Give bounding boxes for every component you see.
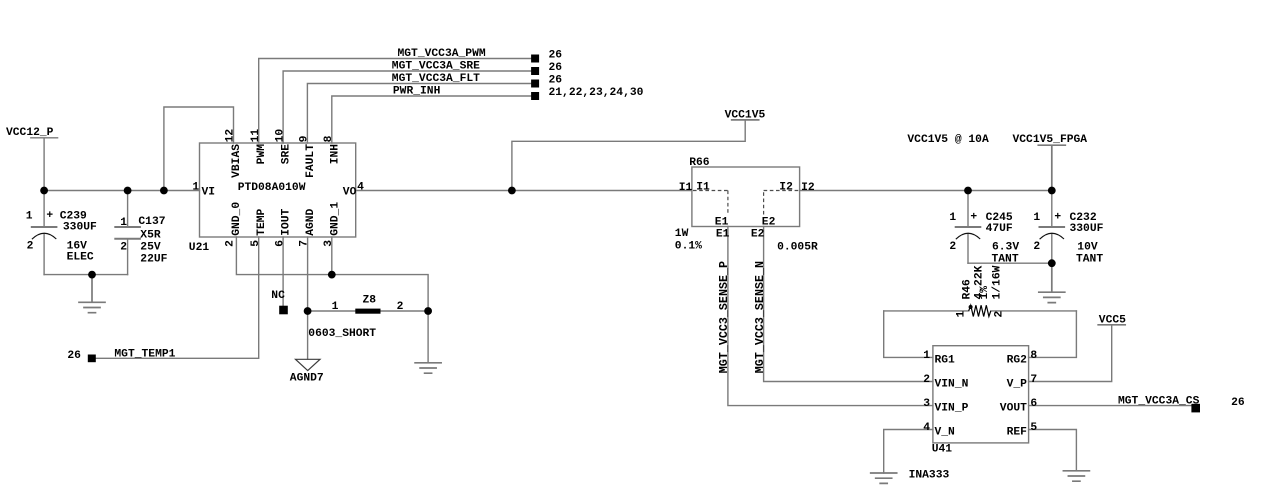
svg-text:AGND: AGND <box>305 208 317 235</box>
no-connect square NC <box>279 306 288 315</box>
svg-text:11: 11 <box>250 129 262 143</box>
svg-text:MGT_VCC3A_CS: MGT_VCC3A_CS <box>1118 396 1200 408</box>
svg-text:IOUT: IOUT <box>281 208 293 235</box>
wire pin SRE to net <box>283 71 531 143</box>
svg-text:1%: 1% <box>979 286 991 300</box>
svg-text:C137: C137 <box>138 216 165 228</box>
svg-text:26: 26 <box>67 350 81 362</box>
svg-text:1: 1 <box>956 311 968 318</box>
wire Z8 leads <box>308 310 429 312</box>
svg-text:25V: 25V <box>140 241 161 253</box>
svg-text:SRE: SRE <box>281 144 293 165</box>
svg-text:1/16W: 1/16W <box>992 265 1004 299</box>
power flag VCC5 <box>1098 324 1125 326</box>
wire VO bus <box>356 190 692 192</box>
svg-text:GND_1: GND_1 <box>329 202 341 236</box>
svg-text:PTD08A010W: PTD08A010W <box>238 182 306 194</box>
svg-text:E1: E1 <box>716 228 730 240</box>
svg-text:Z8: Z8 <box>363 295 377 307</box>
svg-text:3: 3 <box>923 398 930 410</box>
svg-text:22UF: 22UF <box>140 253 167 265</box>
resistor R46 zigzag <box>969 305 991 316</box>
svg-text:2: 2 <box>225 240 237 247</box>
wire pin PWM to net <box>259 59 531 144</box>
ground under REF <box>1063 471 1089 481</box>
svg-text:E2: E2 <box>751 228 765 240</box>
power flag VCC12_P <box>31 138 58 191</box>
wire AGND stem <box>307 237 309 359</box>
wire caps bottom <box>44 274 128 276</box>
svg-text:MGT_TEMP1: MGT_TEMP1 <box>114 349 175 361</box>
wire V_N to ground <box>884 430 933 474</box>
junction node C245 <box>964 187 972 195</box>
svg-text:+: + <box>46 210 53 222</box>
svg-text:VO: VO <box>343 187 357 199</box>
op-amp U41 box <box>933 346 1029 443</box>
svg-text:FAULT: FAULT <box>305 144 317 178</box>
ground symbol AGND7 triangle <box>296 359 321 370</box>
resistor R66 dashed link I2-E2 <box>764 191 799 215</box>
power flag VCC1V5_FPGA <box>1038 145 1065 190</box>
svg-text:0.1%: 0.1% <box>675 240 702 252</box>
svg-text:4: 4 <box>357 182 364 194</box>
svg-text:I1: I1 <box>679 182 693 194</box>
svg-text:VBIAS: VBIAS <box>231 144 243 178</box>
svg-text:16V: 16V <box>67 240 88 252</box>
svg-text:U41: U41 <box>932 444 953 456</box>
svg-text:2: 2 <box>120 242 127 254</box>
svg-text:+: + <box>970 211 977 223</box>
svg-text:330UF: 330UF <box>1070 223 1104 235</box>
ground under Z8 <box>415 363 441 373</box>
wire VBIAS riser <box>164 107 234 191</box>
svg-text:INH: INH <box>329 144 341 165</box>
svg-text:0603_SHORT: 0603_SHORT <box>308 328 376 340</box>
svg-text:8: 8 <box>1030 350 1037 362</box>
svg-text:2: 2 <box>27 240 34 252</box>
net flag square MGT_VCC3A_FLT <box>531 80 539 88</box>
capacitor C232 <box>1051 191 1053 264</box>
svg-text:MGT_VCC3_SENSE_P: MGT_VCC3_SENSE_P <box>717 261 731 373</box>
capacitor C232 curved plate <box>1040 233 1064 239</box>
svg-text:1W: 1W <box>675 228 689 240</box>
wire RG1 drop <box>884 311 933 358</box>
wire REF to ground <box>1029 430 1077 471</box>
svg-text:TANT: TANT <box>992 253 1019 265</box>
svg-text:0.005R: 0.005R <box>777 241 818 253</box>
svg-text:1: 1 <box>192 182 199 194</box>
svg-text:2: 2 <box>923 374 930 386</box>
wire IOUT to NC <box>282 237 284 306</box>
svg-text:R46: R46 <box>961 279 973 300</box>
wire pin FAULT to net <box>307 84 531 144</box>
wire E2 to VIN_N <box>764 227 933 382</box>
net flag square MGT_VCC3A_SRE <box>531 67 539 75</box>
wire E1 to VIN_P <box>728 227 933 406</box>
svg-text:X5R: X5R <box>140 230 161 242</box>
svg-text:1: 1 <box>120 217 127 229</box>
wire TEMP to MGT_TEMP1 <box>96 237 259 358</box>
svg-text:1: 1 <box>332 301 339 313</box>
ground under caps <box>79 275 105 313</box>
svg-text:PWR_INH: PWR_INH <box>393 86 441 98</box>
wire RG2 drop <box>1029 311 1077 358</box>
svg-text:MGT_VCC3A_SRE: MGT_VCC3A_SRE <box>392 61 480 73</box>
svg-text:REF: REF <box>1007 427 1028 439</box>
wire caps bottom right <box>968 262 1052 264</box>
svg-text:VOUT: VOUT <box>1000 403 1027 415</box>
net flag square MGT_TEMP1 <box>88 355 96 363</box>
wire R46 leads <box>884 310 1077 312</box>
junction node VBIAS tap <box>160 187 168 195</box>
svg-text:INA333: INA333 <box>909 470 950 482</box>
svg-text:+: + <box>1054 211 1061 223</box>
junction node VCC1V5 tap <box>508 187 516 195</box>
svg-text:4: 4 <box>923 422 930 434</box>
svg-text:RG2: RG2 <box>1007 355 1028 367</box>
junction node C232 <box>1048 187 1056 195</box>
svg-text:PWM: PWM <box>256 144 268 165</box>
svg-text:26: 26 <box>549 62 563 74</box>
svg-text:MGT_VCC3_SENSE_N: MGT_VCC3_SENSE_N <box>753 261 767 373</box>
junction node VCC12_P <box>40 187 48 195</box>
svg-text:5: 5 <box>250 240 262 247</box>
resistor R46 pin1 dot mark <box>969 306 972 309</box>
svg-text:E2: E2 <box>762 216 776 228</box>
svg-text:TEMP: TEMP <box>256 208 268 235</box>
svg-text:C239: C239 <box>60 210 87 222</box>
wire main left bus <box>44 190 199 192</box>
svg-text:VCC1V5: VCC1V5 <box>725 110 766 122</box>
svg-text:VCC1V5 @ 10A: VCC1V5 @ 10A <box>907 134 989 146</box>
wire pin INH to net <box>332 96 531 143</box>
power flag VCC1V5 <box>732 119 759 121</box>
svg-text:VCC5: VCC5 <box>1099 314 1126 326</box>
svg-text:VIN_N: VIN_N <box>935 379 969 391</box>
svg-text:I2: I2 <box>801 182 815 194</box>
svg-text:V_N: V_N <box>935 427 956 439</box>
svg-text:AGND7: AGND7 <box>290 372 324 384</box>
svg-text:8: 8 <box>323 135 335 142</box>
svg-text:2: 2 <box>949 241 956 253</box>
svg-text:7: 7 <box>1030 374 1037 386</box>
svg-text:26: 26 <box>1231 397 1245 409</box>
svg-text:5: 5 <box>1030 422 1037 434</box>
svg-text:12: 12 <box>225 129 237 143</box>
net flag square PWR_INH <box>531 92 539 100</box>
svg-text:TANT: TANT <box>1076 253 1103 265</box>
wire I2 bus <box>800 190 1052 192</box>
svg-text:10: 10 <box>274 129 286 143</box>
svg-text:2: 2 <box>397 301 404 313</box>
IC U21 box <box>200 143 356 237</box>
capacitor C245 curved plate <box>956 233 980 239</box>
svg-text:1: 1 <box>1033 212 1040 224</box>
svg-text:VCC12_P: VCC12_P <box>6 127 54 139</box>
svg-text:I2: I2 <box>779 181 793 193</box>
svg-text:MGT_VCC3A_PWM: MGT_VCC3A_PWM <box>398 48 486 60</box>
wire GND_0 net <box>236 237 428 363</box>
svg-text:R66: R66 <box>689 157 710 169</box>
junction node C232 bottom <box>1048 259 1056 267</box>
svg-text:26: 26 <box>549 74 563 86</box>
svg-text:U21: U21 <box>189 242 210 254</box>
svg-text:7: 7 <box>299 240 311 247</box>
svg-text:VCC1V5_FPGA: VCC1V5_FPGA <box>1013 134 1088 146</box>
jumper Z8 body <box>355 309 380 314</box>
svg-text:9: 9 <box>299 135 311 142</box>
svg-text:RG1: RG1 <box>935 355 956 367</box>
wire GND_1 stem <box>331 237 333 275</box>
svg-text:GND_0: GND_0 <box>231 202 243 236</box>
svg-text:VI: VI <box>202 187 216 199</box>
resistor R66 box <box>692 167 800 227</box>
capacitor C245 <box>967 191 969 264</box>
junction node Z8 pin2 <box>424 307 432 315</box>
capacitor C239 curved plate <box>32 233 56 239</box>
ground under V_N <box>871 473 897 483</box>
svg-text:21,22,23,24,30: 21,22,23,24,30 <box>549 87 644 99</box>
wire VOUT net <box>1029 405 1192 407</box>
net flag square MGT_VCC3A_PWM <box>531 55 539 63</box>
junction node GND_1 <box>328 271 336 279</box>
ground under C232 <box>1039 263 1065 302</box>
capacitor C239 <box>43 191 45 275</box>
svg-text:E1: E1 <box>715 216 729 228</box>
svg-text:3: 3 <box>323 240 335 247</box>
wire VCC1V5 tap <box>512 120 745 191</box>
svg-text:1: 1 <box>949 212 956 224</box>
junction node C137 <box>124 187 132 195</box>
svg-text:330UF: 330UF <box>63 222 97 234</box>
svg-text:I1: I1 <box>696 181 710 193</box>
svg-text:VIN_P: VIN_P <box>935 403 969 415</box>
svg-text:ELEC: ELEC <box>67 252 94 264</box>
junction node caps ground <box>88 271 96 279</box>
svg-text:26: 26 <box>549 49 563 61</box>
svg-text:6.3V: 6.3V <box>992 241 1019 253</box>
svg-text:6: 6 <box>274 240 286 247</box>
svg-text:10V: 10V <box>1077 241 1098 253</box>
svg-text:V_P: V_P <box>1007 379 1028 391</box>
resistor R66 dashed link I1-E1 <box>693 191 728 215</box>
svg-text:NC: NC <box>271 290 285 302</box>
svg-text:1: 1 <box>923 350 930 362</box>
svg-text:1: 1 <box>26 210 33 222</box>
svg-text:47UF: 47UF <box>986 223 1013 235</box>
svg-text:MGT_VCC3A_FLT: MGT_VCC3A_FLT <box>392 73 480 85</box>
svg-text:2: 2 <box>994 311 1006 318</box>
junction node Z8 pin1 <box>304 307 312 315</box>
wire V_P to VCC5 <box>1029 326 1112 382</box>
svg-text:2: 2 <box>1033 241 1040 253</box>
capacitor C137 <box>127 191 129 275</box>
svg-text:6: 6 <box>1030 398 1037 410</box>
net flag square MGT_VCC3A_CS <box>1191 404 1200 413</box>
